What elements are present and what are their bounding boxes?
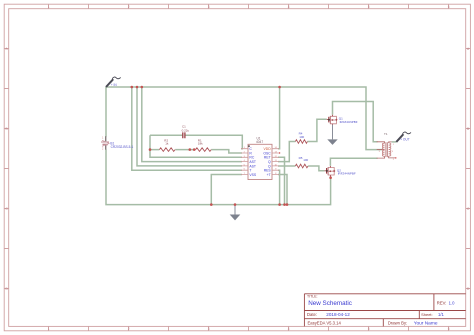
wire battery negative to bottom rail and up to Q2 source <box>106 150 331 205</box>
svg-text:4: 4 <box>288 5 290 9</box>
junction top rail at x137 <box>136 86 139 89</box>
wire VSS to bottom rail <box>211 175 242 205</box>
svg-text:5: 5 <box>368 327 370 331</box>
transformer T1 <box>377 132 397 161</box>
wire RET to bottom rail <box>278 157 285 204</box>
svg-text:1/1: 1/1 <box>438 312 444 317</box>
wire Q to R5 to Q2 gate <box>278 166 325 171</box>
svg-text:1k: 1k <box>165 142 169 146</box>
svg-text:2: 2 <box>128 5 130 9</box>
junction between R2 and R1 left <box>189 148 192 151</box>
svg-text:2018-04-12: 2018-04-12 <box>326 312 350 317</box>
junction RC loop left <box>149 148 152 151</box>
svg-text:6: 6 <box>448 327 450 331</box>
wire battery top feed <box>105 87 107 137</box>
wire VDD riser to top rail <box>278 87 280 149</box>
U1 pin numbers 1-7 <box>244 147 246 175</box>
svg-text:3: 3 <box>208 327 210 331</box>
svg-text:B: B <box>467 127 469 131</box>
wire T1 secondary to OUT flag <box>392 141 397 143</box>
svg-text:1.0: 1.0 <box>449 300 455 305</box>
svg-text:6: 6 <box>448 5 450 9</box>
junction top rail VDD riser <box>278 86 281 89</box>
svg-text:Your Name: Your Name <box>414 321 438 327</box>
svg-text:B: B <box>6 127 8 131</box>
svg-text:4047: 4047 <box>256 140 263 144</box>
svg-text:0.22u: 0.22u <box>182 128 190 132</box>
net flag + OUT <box>396 132 411 142</box>
svg-text:4: 4 <box>288 327 290 331</box>
svg-text:+ IN: + IN <box>111 83 118 87</box>
junction bottom rail VSS <box>210 203 213 206</box>
transistor Q1 IRFZ44NPBF <box>327 115 358 125</box>
resistor R1 18k <box>196 138 212 151</box>
svg-text:3: 3 <box>208 5 210 9</box>
svg-text:5: 5 <box>368 5 370 9</box>
svg-text:2: 2 <box>128 327 130 331</box>
svg-text:Sheet:: Sheet: <box>421 312 433 317</box>
capacitor C1 0.22u <box>182 125 190 139</box>
wire +V top rail to transformer center tap <box>106 87 382 150</box>
svg-text:+ OUT: + OUT <box>400 137 410 141</box>
junction bottom rail RES <box>278 203 281 206</box>
svg-text:1: 1 <box>48 327 50 331</box>
U1 right pin names <box>263 147 271 177</box>
svg-text:EasyEDA V5.3.14: EasyEDA V5.3.14 <box>308 321 342 326</box>
junction top rail at x141.8 <box>141 86 144 89</box>
junction between R2 and R1 right <box>193 148 196 151</box>
wire +T to bottom rail <box>278 175 287 205</box>
junction top rail at x131.8 <box>131 86 134 89</box>
svg-text:100: 100 <box>299 135 304 139</box>
svg-text:VSS: VSS <box>249 173 257 177</box>
battery B1 CR2032-BS-5-1 <box>101 136 134 150</box>
wire +V drop to pin AST <box>137 87 242 166</box>
svg-text:+T: +T <box>267 173 271 177</box>
svg-text:T1: T1 <box>384 132 388 136</box>
unconnected pin marker OSC <box>279 152 280 153</box>
IC U1 4047 <box>241 136 279 179</box>
transistor Q2 IRFZ44NPBF <box>325 166 356 178</box>
wire RC loop left to pin RC <box>150 135 242 157</box>
svg-text:R5: R5 <box>299 156 303 160</box>
resistor R4 100 <box>295 132 307 144</box>
ground on bottom rail <box>230 205 241 221</box>
svg-text:Date:: Date: <box>307 312 317 317</box>
wire +V drop to pin /AST <box>142 87 242 162</box>
wire +V drop to pin /T <box>132 87 242 170</box>
U1 left pin names <box>249 147 257 177</box>
svg-text:REV:: REV: <box>437 300 447 305</box>
svg-text:1: 1 <box>48 5 50 9</box>
wire R2 R1 row to pin R <box>150 150 242 153</box>
svg-text:CR2032-BS-5-1: CR2032-BS-5-1 <box>111 145 134 149</box>
title block <box>304 294 465 327</box>
pin stubs left <box>241 149 248 175</box>
svg-text:New Schematic: New Schematic <box>308 300 352 307</box>
svg-text:Drawn By:: Drawn By: <box>388 321 407 326</box>
U1 pin numbers 14-8 <box>274 147 277 175</box>
ground under Q1 <box>327 125 337 145</box>
svg-text:18k: 18k <box>198 142 203 146</box>
svg-text:IRFZ44NPBF: IRFZ44NPBF <box>338 172 356 176</box>
net flag + IN <box>106 77 121 87</box>
junction bottom rail +T <box>286 203 289 206</box>
svg-text:100: 100 <box>303 158 308 162</box>
wire Q2 drain to transformer bottom-left pin <box>330 158 377 166</box>
wire RC loop top to pin C <box>150 135 242 149</box>
junction Q2 source <box>329 176 332 179</box>
pin stubs right <box>272 149 279 175</box>
wire Q1 drain to transformer top-left pin <box>333 102 378 142</box>
junction bottom rail RET <box>283 203 286 206</box>
junction bottom rail ground <box>234 203 237 206</box>
wire RES to bottom rail <box>278 170 280 204</box>
svg-text:TITLE:: TITLE: <box>307 295 318 299</box>
svg-text:IRFZ44NPBF: IRFZ44NPBF <box>340 120 358 124</box>
resistor R2 1k <box>159 138 175 151</box>
resistor R5 100 <box>295 156 308 168</box>
wire /Q to R4 to Q1 gate <box>278 119 327 161</box>
